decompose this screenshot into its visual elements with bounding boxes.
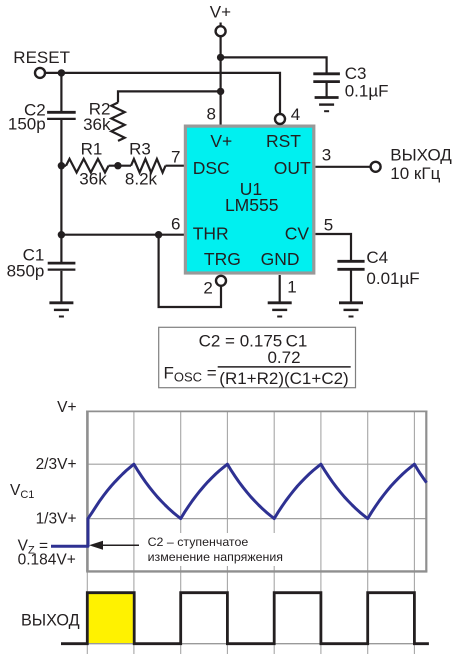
wire CV (pin 5) to C4 <box>315 234 351 260</box>
wire V+ to C3 <box>221 57 327 72</box>
terminal V+ <box>216 26 226 36</box>
node THR/C1 <box>58 231 65 238</box>
wire pin 7 <box>166 165 186 167</box>
capacitor C1 voltage curve (blue) <box>51 464 427 546</box>
svg-text:1: 1 <box>287 278 296 297</box>
resistor R2 <box>111 103 124 141</box>
wire left rail down to THR <box>60 166 62 235</box>
node V+/C3 <box>217 54 224 61</box>
ground below pin 1 <box>268 303 292 317</box>
terminal OUT <box>371 162 381 172</box>
node RESET/C2 <box>58 69 65 76</box>
ground below C4 <box>339 303 363 317</box>
svg-text:ВЫХОД: ВЫХОД <box>390 146 452 165</box>
terminal pin 2 TRG <box>216 276 226 286</box>
svg-text:0.1µF: 0.1µF <box>345 82 389 101</box>
node R1/R2/R3 <box>114 162 121 169</box>
svg-text:GND: GND <box>261 249 300 269</box>
svg-text:CV: CV <box>285 224 310 244</box>
grid horizontal line 2/3V+ <box>87 463 426 465</box>
svg-text:R1: R1 <box>81 139 103 158</box>
svg-text:8.2k: 8.2k <box>125 169 158 188</box>
node THR/TRG <box>155 231 162 238</box>
annotation white backing <box>145 533 285 566</box>
wire RESET rail to pin 4 <box>46 73 280 114</box>
output square wave <box>61 593 429 644</box>
svg-text:36k: 36k <box>83 115 111 134</box>
svg-text:RESET: RESET <box>13 48 70 67</box>
wire OUT (pin 3) <box>315 166 369 168</box>
wire TRG (pin 2) loop <box>159 235 221 307</box>
svg-text:V+: V+ <box>210 131 232 151</box>
svg-text:LM555: LM555 <box>225 195 279 215</box>
svg-text:8: 8 <box>207 105 216 124</box>
ground below C1 <box>49 303 73 317</box>
svg-text:изменение напряжения: изменение напряжения <box>148 550 283 564</box>
svg-text:0.72: 0.72 <box>267 348 300 367</box>
wire R2 top to V+ rail <box>118 91 221 102</box>
svg-text:R3: R3 <box>129 139 151 158</box>
svg-text:10 кГц: 10 кГц <box>390 164 440 183</box>
resistor R3 <box>131 159 166 173</box>
svg-text:150p: 150p <box>8 115 46 134</box>
terminal RESET <box>35 68 45 78</box>
wire C1 branch <box>60 235 62 262</box>
svg-text:C3: C3 <box>345 64 367 83</box>
wire C2 branch <box>60 73 62 111</box>
resistor R1 <box>66 159 109 173</box>
svg-text:1/3V+: 1/3V+ <box>36 510 77 527</box>
svg-text:0.184V+: 0.184V+ <box>18 552 76 569</box>
wire R1 to R3 node <box>61 165 66 167</box>
grid vertical gridlines <box>87 412 414 655</box>
annotation arrow <box>89 541 139 550</box>
svg-text:2/3V+: 2/3V+ <box>36 456 77 473</box>
svg-text:850p: 850p <box>7 262 45 281</box>
svg-text:V+: V+ <box>57 399 76 416</box>
IC U1 LM555 body <box>185 126 313 273</box>
node V+/R2 <box>217 88 224 95</box>
capacitor C4 <box>337 261 364 269</box>
wire V+ rail (pin 8) <box>220 23 222 26</box>
capacitor C2 <box>47 112 76 119</box>
svg-text:36k: 36k <box>79 169 107 188</box>
svg-text:OUT: OUT <box>274 158 311 178</box>
svg-text:0.01µF: 0.01µF <box>366 269 419 288</box>
output baseline gridline (gray under pulses) <box>87 643 426 645</box>
ground below C3 <box>315 98 339 112</box>
svg-text:7: 7 <box>171 148 180 167</box>
capacitor C3 <box>313 74 340 97</box>
svg-text:6: 6 <box>171 214 180 233</box>
svg-text:C4: C4 <box>366 248 388 267</box>
terminal pin 4 RST <box>275 114 285 124</box>
svg-text:RST: RST <box>266 131 301 151</box>
svg-text:ВЫХОД: ВЫХОД <box>21 611 80 629</box>
svg-text:DSC: DSC <box>193 158 230 178</box>
wire GND (pin 1) <box>279 275 281 302</box>
fraction bar <box>218 366 351 368</box>
svg-text:2: 2 <box>203 278 212 297</box>
svg-text:3: 3 <box>322 146 331 165</box>
svg-text:TRG: TRG <box>204 249 241 269</box>
svg-text:4: 4 <box>291 105 300 124</box>
svg-text:C2 – ступенчатое: C2 – ступенчатое <box>148 535 249 549</box>
grid horizontal line 1/3V+ <box>87 518 426 520</box>
node C2/R1 <box>58 162 65 169</box>
capacitor C1 <box>48 263 76 270</box>
svg-text:V+: V+ <box>210 3 231 22</box>
grid frame <box>86 411 427 572</box>
svg-text:THR: THR <box>193 224 229 244</box>
svg-text:(R1+R2)(C1+C2): (R1+R2)(C1+C2) <box>219 369 348 388</box>
svg-text:5: 5 <box>324 215 333 234</box>
yellow output pulse fill <box>89 594 133 644</box>
wire THR (pin 6) <box>61 234 185 236</box>
